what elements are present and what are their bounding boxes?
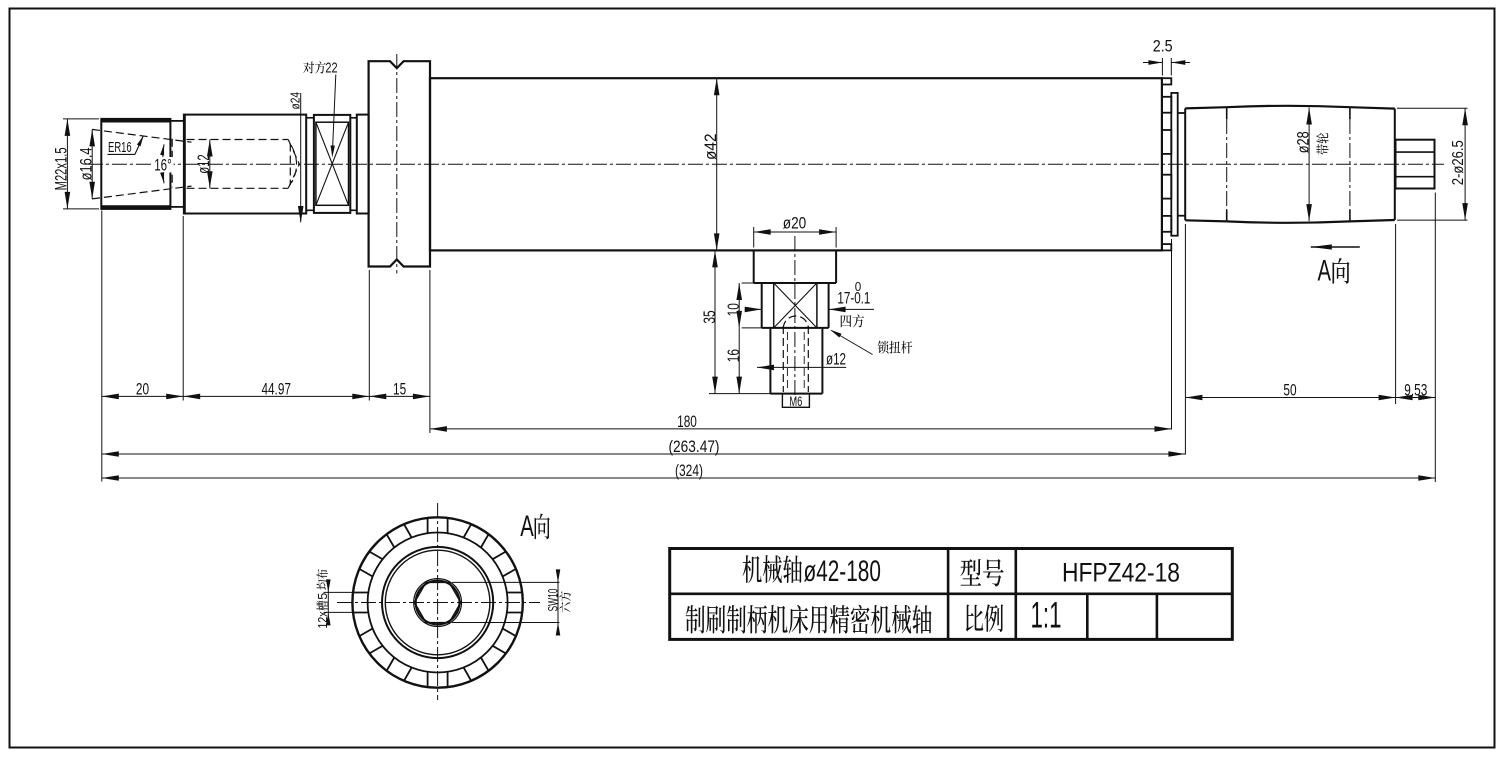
dim (324) bbox=[102, 477, 1436, 479]
dim (263.47) bbox=[102, 453, 1186, 455]
pulley right land bbox=[1350, 107, 1395, 108]
svg-text:A: A bbox=[520, 510, 534, 543]
12x slot5 dimension bbox=[324, 591, 355, 593]
svg-text:ø28: ø28 bbox=[1294, 131, 1312, 153]
dim 44.97 bbox=[183, 395, 369, 397]
A view slot-bottom circle bbox=[368, 533, 508, 673]
16 degree taper angle arc bbox=[163, 144, 164, 183]
A view direction arrow bbox=[1311, 246, 1360, 248]
disc web bbox=[1171, 93, 1177, 236]
dia12 label bbox=[757, 366, 846, 368]
dim 9.53 bbox=[1396, 397, 1436, 399]
dia42 dimension bbox=[716, 78, 718, 250]
collar between disc and pulley bbox=[1178, 112, 1186, 114]
A view outer circle dia42 bbox=[352, 517, 522, 687]
flange wheel with V-groove rim bbox=[369, 61, 430, 266]
svg-text:M6: M6 bbox=[789, 394, 802, 409]
title: jixiezhou dia42-180 bbox=[743, 555, 762, 583]
A view pulley circles dia28/26.5 bbox=[382, 547, 493, 658]
groove centerline 1 bbox=[1226, 107, 1228, 119]
A view hex SW10 with circles bbox=[416, 581, 460, 625]
SW10 hex dimension bbox=[452, 581, 560, 583]
internal bore dia12 hidden lines bbox=[187, 139, 289, 141]
square drive section (22 A/F) with cross bbox=[314, 115, 350, 213]
pulley crown bbox=[1227, 106, 1350, 107]
svg-text:15: 15 bbox=[393, 380, 406, 399]
2-dia26.5 groove diameter dimension bbox=[1397, 107, 1468, 109]
lock rod dia12 cylinder bbox=[769, 328, 771, 394]
lock rod leader label bbox=[832, 331, 873, 355]
svg-text:ø24: ø24 bbox=[287, 92, 302, 110]
dim 15 bbox=[369, 395, 430, 397]
dia12 bore dimension bbox=[209, 140, 211, 189]
svg-text:22: 22 bbox=[325, 60, 337, 76]
svg-text:HFPZ42-18: HFPZ42-18 bbox=[1062, 557, 1180, 587]
M22x1.5 dimension bbox=[63, 118, 99, 120]
shaft section dia24 bbox=[184, 115, 306, 214]
pulley left land bbox=[1184, 108, 1186, 220]
svg-text:ø12: ø12 bbox=[194, 154, 213, 174]
main shaft centerline bbox=[88, 163, 1444, 165]
groove centerline 2 bbox=[1349, 107, 1351, 119]
svg-text:16: 16 bbox=[724, 349, 743, 362]
10 dimension bbox=[742, 282, 762, 284]
svg-text:(324): (324) bbox=[675, 461, 703, 480]
17-0.1 square width dimension bbox=[748, 308, 762, 310]
M6 stud end bbox=[782, 394, 809, 408]
dim 20 bbox=[102, 395, 183, 397]
model label xinghao bbox=[960, 559, 981, 586]
slotted locking disc, teeth bbox=[1162, 78, 1171, 84]
subtitle bbox=[686, 605, 705, 633]
svg-text:20: 20 bbox=[136, 380, 149, 399]
dim 180 bbox=[430, 428, 1172, 430]
16 dimension bbox=[738, 328, 740, 394]
svg-text:35: 35 bbox=[700, 310, 719, 323]
lock rod boss dia20 bbox=[753, 250, 755, 283]
dia20 dimension bbox=[753, 227, 755, 248]
svg-text:50: 50 bbox=[1283, 381, 1296, 400]
dailun label bbox=[1316, 133, 1328, 155]
extension lines bbox=[101, 211, 103, 482]
svg-text:12x: 12x bbox=[315, 611, 330, 628]
svg-text:ø42-180: ø42-180 bbox=[804, 555, 881, 588]
svg-text:180: 180 bbox=[677, 412, 697, 431]
svg-text:ø42: ø42 bbox=[701, 134, 720, 161]
svg-text:SW10: SW10 bbox=[545, 588, 561, 611]
main shaft body dia42 x180 bbox=[430, 78, 1162, 250]
collar before flange bbox=[357, 115, 369, 214]
dim 50 bbox=[1185, 397, 1395, 399]
12 radial slots bbox=[353, 518, 522, 687]
svg-text:ø16.4: ø16.4 bbox=[76, 147, 95, 180]
flange centerline bbox=[396, 54, 398, 274]
A view crosshair centerlines bbox=[337, 602, 540, 604]
svg-text:1:1: 1:1 bbox=[1031, 595, 1062, 636]
neck behind nut bbox=[170, 120, 184, 122]
relief groove left bbox=[306, 117, 314, 119]
svg-text:A: A bbox=[1318, 255, 1332, 288]
collet nut ER16 body bbox=[101, 119, 170, 209]
svg-text:2-ø26.5: 2-ø26.5 bbox=[1450, 140, 1467, 185]
dia16.4 dimension bbox=[91, 129, 93, 198]
label duifang22 with leader bbox=[303, 61, 314, 73]
svg-text:M22x1.5: M22x1.5 bbox=[52, 147, 71, 190]
splined stub end bbox=[1396, 140, 1435, 189]
svg-text:44.97: 44.97 bbox=[261, 380, 291, 399]
2.5 slot width dimension bbox=[1161, 58, 1163, 76]
svg-text:16°: 16° bbox=[154, 155, 172, 174]
dia28 dimension bbox=[1308, 108, 1310, 222]
svg-text:5: 5 bbox=[315, 593, 330, 600]
ER16 taper hidden lines bbox=[92, 129, 192, 142]
dia24 dimension leader bbox=[300, 93, 302, 222]
svg-text:9.53: 9.53 bbox=[1404, 381, 1427, 400]
svg-text:10: 10 bbox=[724, 303, 743, 316]
title block table bbox=[670, 549, 1233, 640]
35 dimension bbox=[709, 393, 770, 395]
svg-text:2.5: 2.5 bbox=[1153, 37, 1173, 56]
block centerline bbox=[794, 236, 796, 400]
svg-text:0: 0 bbox=[855, 280, 862, 294]
svg-text:ø12: ø12 bbox=[826, 349, 846, 368]
svg-text:ER16: ER16 bbox=[108, 140, 132, 156]
relief groove right bbox=[350, 117, 357, 119]
square 17 section with cross bbox=[761, 283, 763, 328]
M6 thread hidden lines + drill dome bbox=[782, 326, 784, 392]
sifang (square) label bbox=[841, 315, 852, 327]
svg-text:ø20: ø20 bbox=[783, 214, 807, 233]
svg-text:(263.47): (263.47) bbox=[669, 437, 720, 456]
scale label bili bbox=[966, 605, 983, 632]
